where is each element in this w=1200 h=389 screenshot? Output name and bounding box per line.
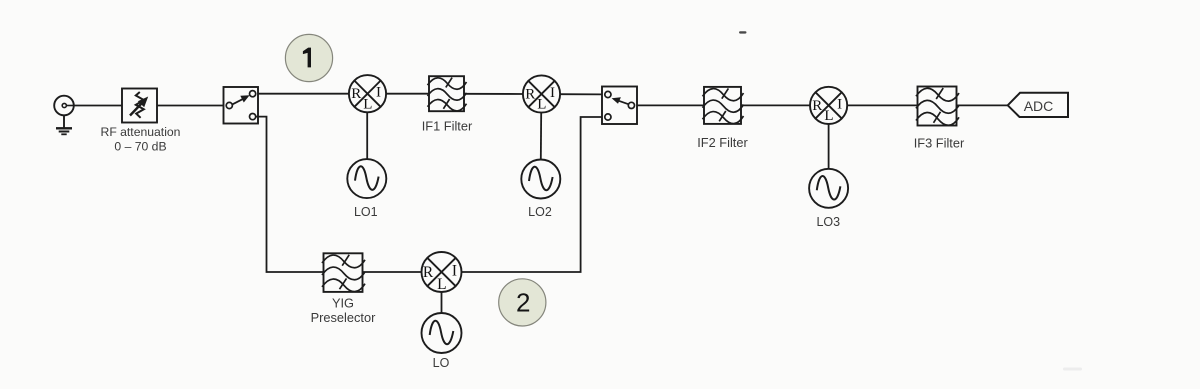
svg-text:I: I xyxy=(550,85,555,101)
wire J1 to attenuator xyxy=(74,105,122,107)
IF3 filter FL3 xyxy=(916,87,959,126)
svg-text:0 – 70 dB: 0 – 70 dB xyxy=(114,140,166,154)
svg-text:I: I xyxy=(837,96,842,112)
mixer M1 xyxy=(349,75,386,112)
svg-text:RF attenuation: RF attenuation xyxy=(101,125,181,139)
svg-text:L: L xyxy=(437,276,446,293)
ADC block xyxy=(1008,93,1068,117)
wire M4 to LO xyxy=(441,292,443,313)
YIG preselector FL4 xyxy=(322,253,365,292)
svg-text:L: L xyxy=(537,97,546,113)
wire IF2 to mixer M3 xyxy=(741,104,810,106)
svg-text:YIG: YIG xyxy=(332,296,354,311)
wire IF1 to mixer M2 xyxy=(464,93,523,95)
faint smudge artifact xyxy=(1063,368,1082,371)
svg-text:LO: LO xyxy=(433,356,450,370)
svg-text:IF2 Filter: IF2 Filter xyxy=(697,135,748,150)
oscillator LO xyxy=(422,313,462,353)
wire S1 to YIG preselector xyxy=(256,117,324,272)
svg-text:L: L xyxy=(363,96,372,112)
IF2 filter FL2 xyxy=(703,87,744,124)
svg-text:2: 2 xyxy=(516,287,530,317)
switch S2 xyxy=(602,87,637,125)
wire M1 to LO1 xyxy=(366,112,368,160)
svg-text:IF3 Filter: IF3 Filter xyxy=(914,135,965,150)
svg-text:IF1 Filter: IF1 Filter xyxy=(422,118,473,133)
svg-text:I: I xyxy=(452,263,457,280)
wire M4 to switch S2 xyxy=(462,117,603,272)
svg-text:ADC: ADC xyxy=(1024,98,1054,114)
callout marker 2 xyxy=(499,279,546,326)
svg-text:R: R xyxy=(812,98,822,114)
wire M1 to IF1 filter xyxy=(386,93,429,95)
svg-text:LO2: LO2 xyxy=(528,205,552,219)
svg-text:R: R xyxy=(423,264,434,281)
svg-text:LO1: LO1 xyxy=(354,205,378,219)
wire IF3 to ADC xyxy=(957,104,1009,106)
svg-text:I: I xyxy=(376,85,381,101)
mixer M3 xyxy=(810,87,847,124)
wire M2 to LO2 xyxy=(540,113,542,161)
oscillator LO2 xyxy=(521,160,560,199)
stray dash artifact xyxy=(739,31,747,33)
wire M3 to IF3 filter xyxy=(847,104,917,106)
switch S1 xyxy=(224,87,259,124)
oscillator LO1 xyxy=(347,159,386,198)
wire M2 to switch S2 xyxy=(560,93,602,95)
wire YIG to mixer M4 xyxy=(363,271,422,273)
RF attenuator A1 xyxy=(122,89,157,123)
wire M3 to LO3 xyxy=(828,124,830,169)
svg-text:Preselector: Preselector xyxy=(311,310,376,325)
wire attenuator to switch S1 xyxy=(157,105,224,107)
callout marker 1 xyxy=(285,34,332,81)
svg-text:LO3: LO3 xyxy=(816,215,840,229)
input connector J1 xyxy=(54,96,74,116)
mixer M2 xyxy=(523,75,560,112)
svg-text:L: L xyxy=(824,108,833,124)
oscillator LO3 xyxy=(809,169,848,208)
IF1 filter FL1 xyxy=(428,76,467,111)
svg-text:R: R xyxy=(351,86,361,102)
wire S1 to mixer M1 xyxy=(258,93,349,95)
svg-text:R: R xyxy=(525,87,535,103)
wire S2 to IF2 filter xyxy=(637,104,704,106)
ground xyxy=(56,115,72,134)
mixer M4 xyxy=(422,252,462,293)
